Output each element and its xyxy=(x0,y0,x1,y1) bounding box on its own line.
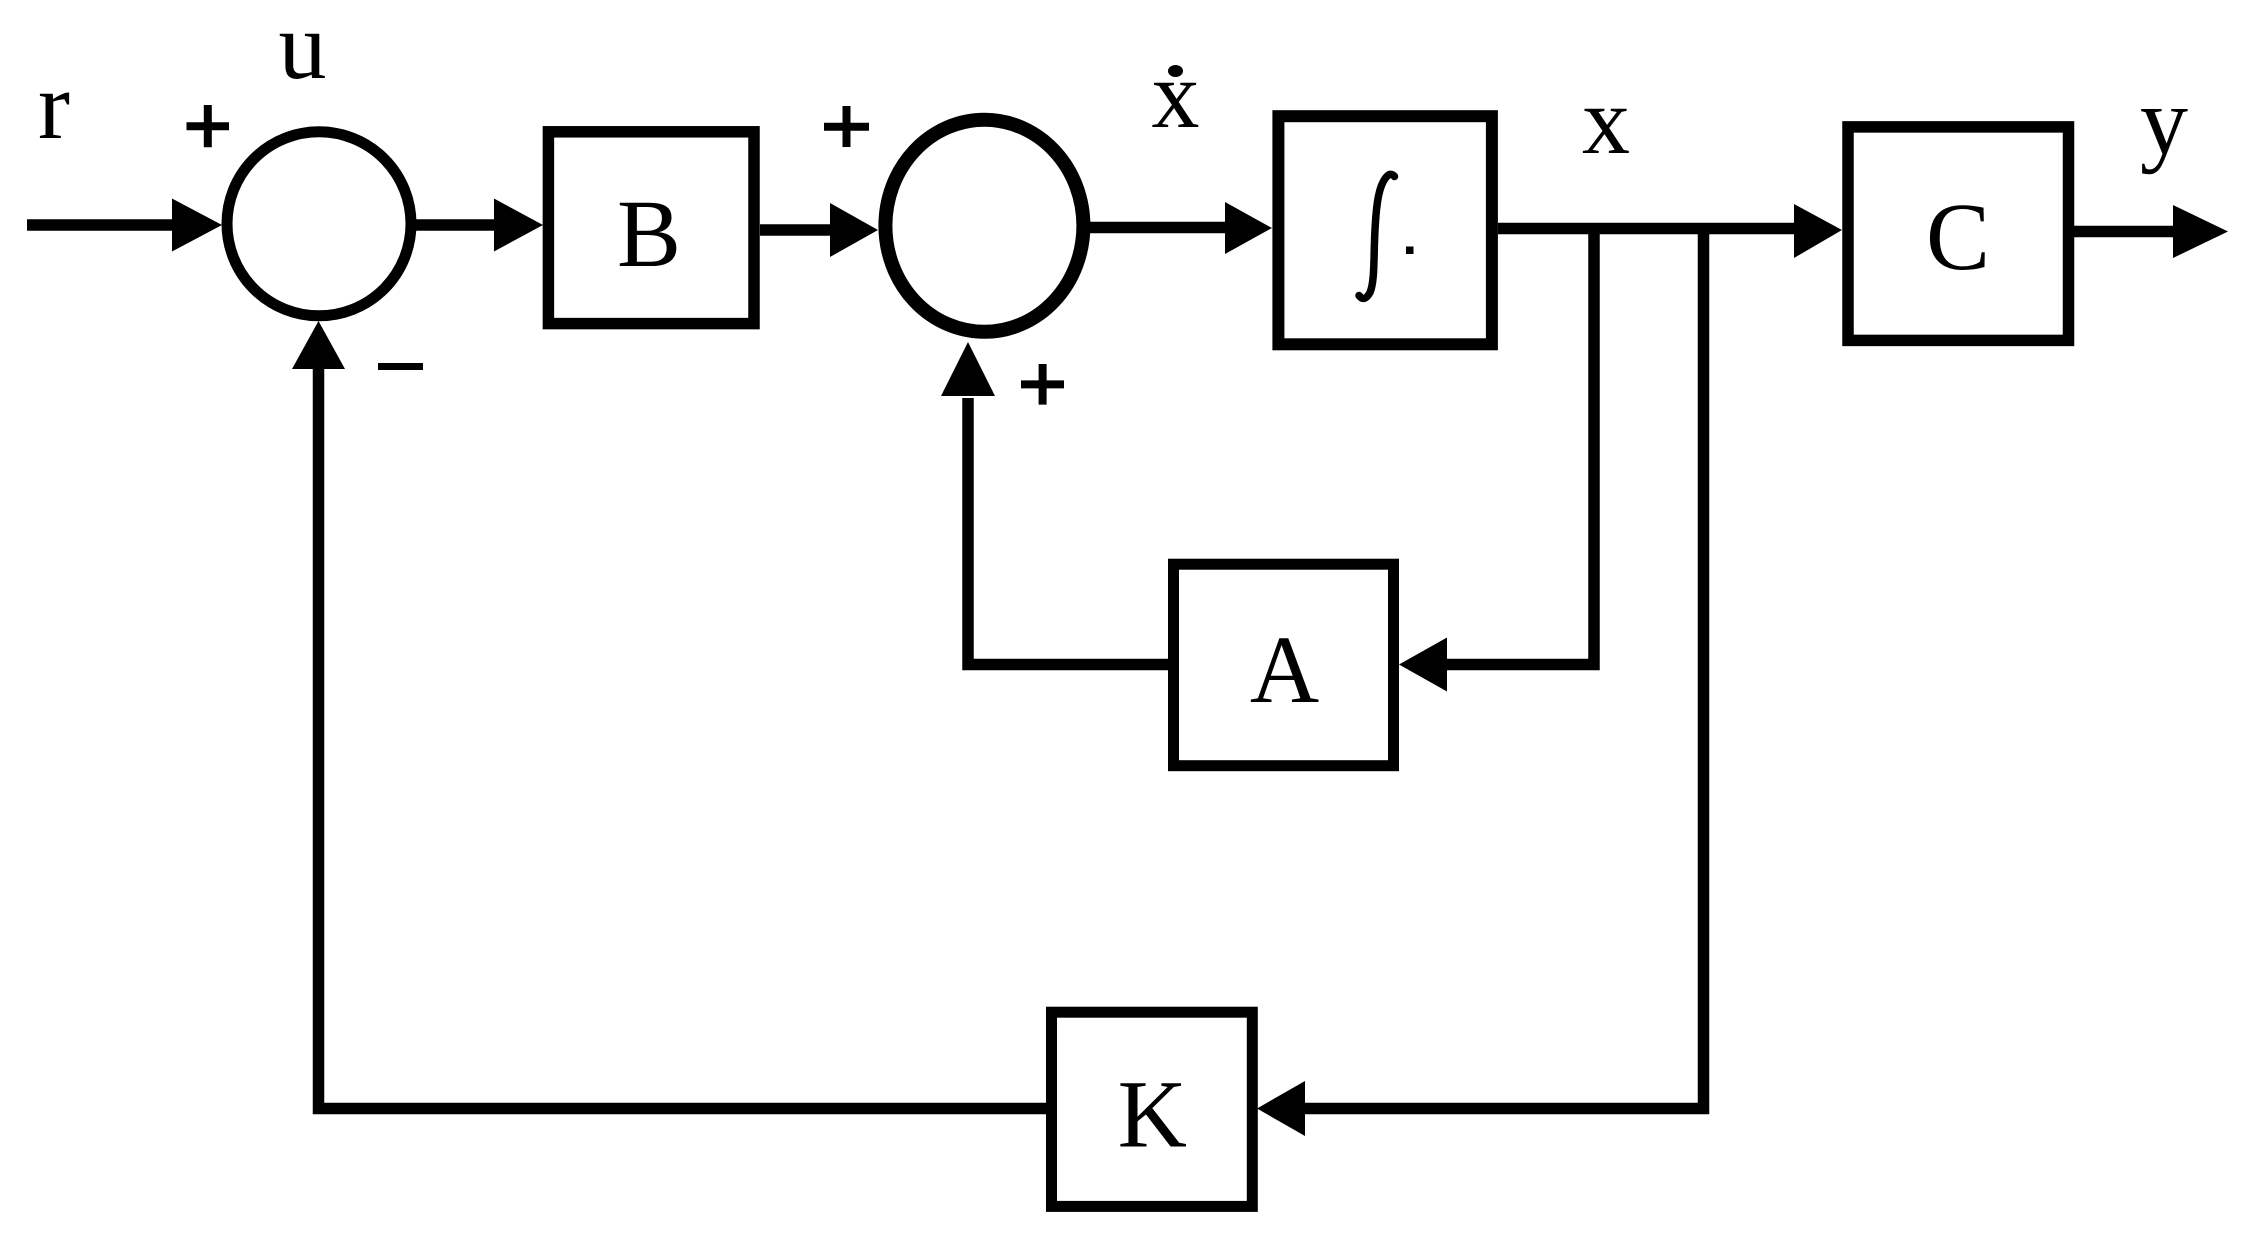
block A xyxy=(1174,564,1394,766)
wire: B to S2 xyxy=(760,203,878,257)
svg-text:B: B xyxy=(617,180,681,287)
node plus sign below S2 xyxy=(1021,364,1064,405)
svg-text:y: y xyxy=(2140,68,2188,175)
block integrator xyxy=(1278,116,1492,344)
svg-text:u: u xyxy=(279,0,327,99)
svg-text:C: C xyxy=(1926,183,1990,290)
wire: input r line xyxy=(27,199,222,252)
svg-text:K: K xyxy=(1118,1061,1187,1168)
wire: x line tap down to A input xyxy=(1399,228,1594,692)
node plus sign above S2 xyxy=(824,106,869,147)
block K xyxy=(1052,1012,1253,1206)
block C xyxy=(1848,127,2069,341)
wire: x line tap down to K input xyxy=(1257,228,1704,1136)
summing junction S1 xyxy=(227,132,411,316)
wire: S2 to integrator xyxy=(1090,202,1272,254)
wire: A output up to S2 xyxy=(941,342,1169,665)
wire: C output y xyxy=(2074,205,2228,258)
block B xyxy=(548,132,754,324)
node minus sign at summer S1 xyxy=(378,363,423,370)
svg-text:x: x xyxy=(1152,41,1200,148)
svg-text:A: A xyxy=(1250,616,1319,723)
wire: S1 to B xyxy=(416,199,543,252)
svg-text:x: x xyxy=(1582,67,1630,174)
wire: K output to S1 (negative feedback) xyxy=(292,321,1046,1109)
wire: integrator to C (x line) xyxy=(1498,204,1842,258)
svg-text:r: r xyxy=(38,52,70,159)
summing junction S2 xyxy=(885,120,1083,332)
node xdot label xyxy=(1152,41,1200,148)
node plus sign at summer S1 xyxy=(187,105,230,147)
